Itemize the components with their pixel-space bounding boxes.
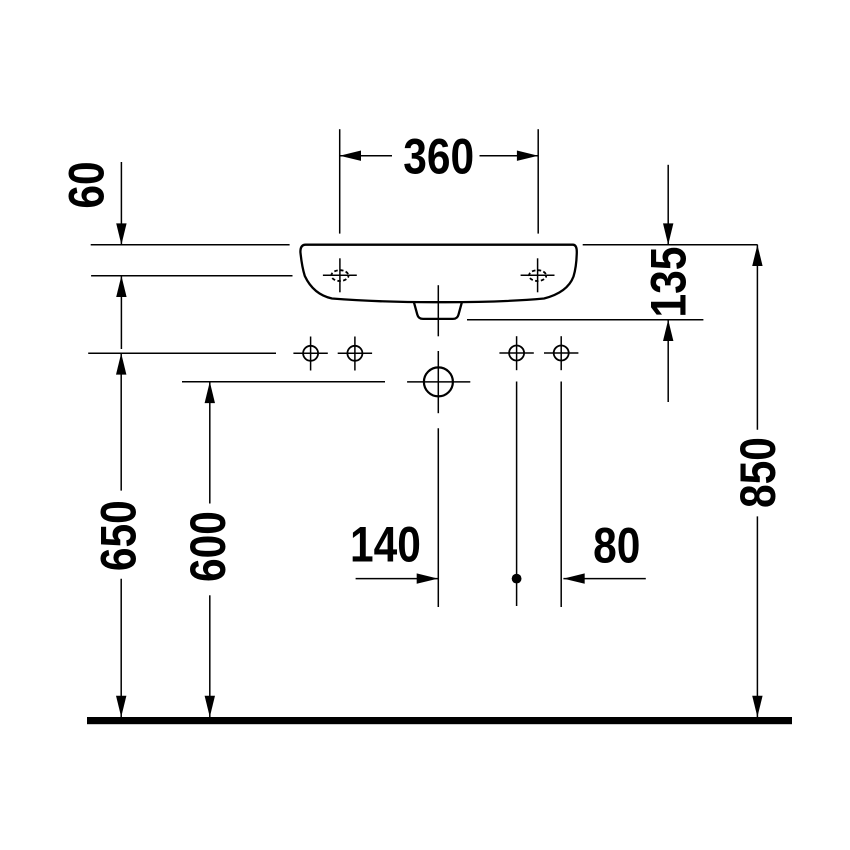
dim 135 arrow down — [663, 223, 673, 244]
basin tap hole right crosshair — [521, 274, 555, 276]
svg-text:140: 140 — [350, 517, 421, 573]
dim 80 arrow line — [563, 578, 645, 580]
dim 60 line upper — [120, 162, 122, 245]
dim 360 arrow left — [340, 155, 392, 157]
dim 850 arrow down — [752, 696, 762, 717]
dim 850 arrow up — [752, 245, 762, 266]
wall tap hole 3 centerline drop — [516, 382, 518, 607]
svg-text:650: 650 — [90, 500, 146, 571]
dim 135 arrow up — [663, 320, 673, 341]
dim 60 line lower — [120, 276, 122, 349]
dim 135 line upper — [667, 165, 669, 245]
dim 600 arrow down — [205, 696, 215, 717]
svg-text:600: 600 — [180, 511, 236, 582]
reference line 3 (wall tap-hole level) — [88, 352, 276, 354]
floor line — [87, 717, 792, 724]
basin tap hole right (dashed circle) — [529, 270, 546, 281]
dim 850 line upper — [756, 245, 758, 430]
reference line 4 (drain level) — [182, 381, 385, 383]
dim 135 line lower — [667, 320, 669, 402]
basin outline — [300, 245, 576, 303]
svg-text:850: 850 — [730, 437, 786, 508]
dim 140 arrow line — [356, 578, 438, 580]
svg-text:360: 360 — [403, 128, 474, 184]
wall tap hole circle 2 — [347, 346, 362, 361]
wall tap hole circle 1 — [303, 346, 318, 361]
dim 60 arrow down — [116, 223, 126, 244]
drain centerline through circle — [437, 351, 439, 413]
drain centerline upper segment — [437, 285, 439, 336]
dim 600 line lower — [209, 595, 211, 717]
svg-text:60: 60 — [58, 161, 114, 208]
svg-text:135: 135 — [640, 247, 696, 318]
drain crosshair horizontal — [407, 381, 470, 383]
wall reference line left (tap-rim level) — [91, 244, 290, 246]
basin tap hole left (dashed circle) — [331, 270, 348, 281]
dim 60 arrow up — [116, 276, 126, 297]
wall tap hole circle 3 — [509, 346, 524, 361]
dim 850 line lower — [756, 516, 758, 717]
basin outlet (drain spigot) — [414, 302, 462, 319]
dim 360 extension line right — [537, 129, 539, 233]
wall reference line right (tap-rim level) — [583, 244, 758, 246]
dim 140 arrow head — [417, 573, 438, 583]
wall tap hole 4 crosshair — [544, 352, 578, 354]
dim 360 extension line left — [339, 129, 341, 233]
dim 80 arrow head — [563, 573, 584, 583]
dim 600 arrow up — [205, 382, 215, 403]
reference line 2 (basin tap-hole level) — [91, 275, 292, 277]
basin tap hole left crosshair — [323, 274, 357, 276]
dim 650 arrow down — [116, 696, 126, 717]
wall tap hole 2 crosshair — [338, 352, 372, 354]
wall tap hole 1 crosshair — [293, 352, 327, 354]
reference line under basin (135 lower level) — [467, 319, 703, 321]
dim 600 line upper — [209, 382, 211, 504]
wall tap hole circle 4 — [554, 346, 569, 361]
drain centerline lower segment — [437, 428, 439, 607]
svg-text:80: 80 — [593, 518, 640, 574]
dim 360 arrow right — [480, 155, 539, 157]
dim reference dot — [512, 574, 522, 584]
dim 650 line lower — [120, 579, 122, 717]
wall tap hole 4 centerline drop — [560, 382, 562, 608]
dim 650 line upper — [120, 353, 122, 490]
dim 650 arrow up — [116, 353, 126, 374]
drain circle — [424, 367, 453, 396]
wall tap hole 3 crosshair — [499, 352, 533, 354]
